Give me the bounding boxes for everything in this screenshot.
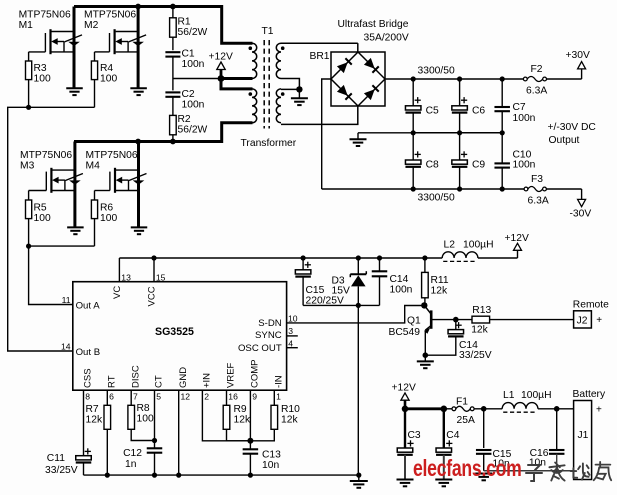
svg-text:9: 9 [252, 391, 257, 401]
svg-text:Battery: Battery [573, 389, 606, 400]
svg-text:F1: F1 [456, 397, 468, 408]
svg-text:BR1: BR1 [310, 51, 330, 62]
svg-text:2: 2 [204, 391, 209, 401]
svg-text:VC: VC [112, 286, 123, 299]
svg-text:25A: 25A [457, 415, 475, 426]
svg-text:1: 1 [276, 391, 281, 401]
svg-text:Out B: Out B [76, 347, 101, 358]
svg-text:C7: C7 [513, 102, 526, 113]
svg-text:15: 15 [156, 273, 166, 283]
svg-text:+12V: +12V [392, 382, 416, 393]
svg-text:12k: 12k [281, 415, 298, 426]
svg-text:R8: R8 [137, 403, 150, 414]
svg-text:35A/200V: 35A/200V [364, 33, 409, 44]
svg-text:7: 7 [133, 391, 138, 401]
svg-text:MTP75N06: MTP75N06 [86, 150, 138, 161]
svg-text:C11: C11 [47, 453, 65, 464]
svg-text:C3: C3 [408, 430, 421, 441]
svg-text:100n: 100n [513, 113, 536, 124]
svg-text:+12V: +12V [505, 233, 529, 244]
svg-text:VCC: VCC [147, 286, 158, 306]
svg-text:5: 5 [156, 391, 161, 401]
svg-text:33/25V: 33/25V [459, 350, 492, 361]
svg-text:MTP75N06: MTP75N06 [84, 9, 136, 20]
svg-text:3300/50: 3300/50 [418, 66, 455, 77]
svg-text:J1: J1 [578, 430, 589, 441]
svg-text:12k: 12k [86, 415, 103, 426]
svg-text:M2: M2 [84, 20, 99, 31]
svg-text:100n: 100n [390, 285, 413, 296]
svg-text:L1: L1 [503, 390, 515, 401]
svg-text:100: 100 [100, 213, 117, 224]
svg-text:R6: R6 [100, 203, 113, 214]
svg-text:+: + [596, 315, 602, 326]
svg-text:100: 100 [100, 74, 117, 85]
svg-text:MTP75N06: MTP75N06 [19, 9, 71, 20]
svg-text:100n: 100n [182, 59, 205, 70]
svg-text:13: 13 [121, 273, 131, 283]
svg-text:CSS: CSS [83, 368, 94, 388]
svg-text:R11: R11 [431, 275, 449, 286]
svg-text:R3: R3 [34, 63, 47, 74]
svg-text:COMP: COMP [250, 360, 261, 389]
svg-text:+IN: +IN [202, 373, 213, 388]
svg-text:CT: CT [154, 375, 165, 388]
svg-text:C13: C13 [262, 450, 281, 461]
svg-text:S-DN: S-DN [258, 318, 282, 329]
svg-text:100: 100 [137, 414, 154, 425]
svg-text:BC549: BC549 [389, 327, 421, 338]
svg-text:12k: 12k [431, 286, 448, 297]
svg-text:100: 100 [34, 213, 51, 224]
svg-text:33/25V: 33/25V [45, 465, 78, 476]
svg-text:Out A: Out A [76, 300, 101, 311]
svg-text:Q1: Q1 [407, 316, 421, 327]
svg-text:C12: C12 [123, 448, 142, 459]
svg-text:C9: C9 [472, 160, 485, 171]
svg-text:100: 100 [34, 74, 51, 85]
svg-text:MTP75N06: MTP75N06 [20, 150, 72, 161]
svg-text:3: 3 [288, 326, 293, 336]
svg-text:14: 14 [61, 341, 71, 351]
svg-text:16: 16 [228, 391, 238, 401]
svg-text:Ultrafast Bridge: Ultrafast Bridge [338, 19, 409, 30]
svg-text:10: 10 [288, 313, 298, 323]
svg-text:F2: F2 [531, 64, 543, 75]
svg-text:R4: R4 [100, 63, 113, 74]
svg-text:R1: R1 [178, 17, 191, 28]
svg-text:6.3A: 6.3A [528, 196, 549, 207]
svg-text:100n: 100n [182, 100, 205, 111]
svg-text:Transformer: Transformer [241, 138, 297, 149]
svg-text:C1: C1 [182, 49, 195, 60]
svg-text:+30V: +30V [566, 50, 590, 61]
svg-text:3300/50: 3300/50 [418, 193, 455, 204]
svg-text:-30V: -30V [570, 209, 592, 220]
svg-text:-IN: -IN [274, 375, 285, 388]
svg-text:M3: M3 [20, 161, 35, 172]
svg-text:R9: R9 [234, 404, 247, 415]
svg-text:12k: 12k [234, 415, 251, 426]
svg-text:100µH: 100µH [463, 240, 494, 251]
svg-text:Output: Output [549, 135, 580, 146]
svg-text:R2: R2 [178, 114, 191, 125]
svg-text:Remote: Remote [573, 300, 609, 311]
svg-text:DISC: DISC [130, 365, 141, 388]
svg-text:4: 4 [288, 338, 293, 348]
svg-text:M1: M1 [19, 20, 34, 31]
svg-text:R13: R13 [472, 305, 491, 316]
svg-text:56/2W: 56/2W [178, 125, 208, 136]
svg-text:C15: C15 [306, 285, 325, 296]
svg-text:56/2W: 56/2W [178, 27, 208, 38]
svg-text:11: 11 [62, 295, 71, 305]
svg-text:15V: 15V [332, 286, 350, 297]
svg-text:R5: R5 [34, 203, 47, 214]
svg-text:100n: 100n [513, 160, 536, 171]
svg-text:+/-30V DC: +/-30V DC [548, 122, 597, 133]
svg-text:L2: L2 [444, 240, 456, 251]
svg-text:F3: F3 [531, 174, 543, 185]
svg-text:R10: R10 [281, 404, 300, 415]
svg-text:C14: C14 [390, 274, 409, 285]
svg-text:M4: M4 [86, 161, 101, 172]
svg-text:8: 8 [85, 391, 90, 401]
svg-text:C5: C5 [426, 106, 439, 117]
svg-text:T1: T1 [262, 26, 274, 37]
svg-text:100µH: 100µH [521, 390, 552, 401]
svg-text:6.3A: 6.3A [526, 86, 547, 97]
svg-text:6: 6 [109, 391, 114, 401]
svg-text:R7: R7 [86, 404, 99, 415]
svg-text:C8: C8 [426, 160, 439, 171]
svg-text:RT: RT [107, 375, 118, 388]
svg-text:VREF: VREF [226, 362, 237, 388]
svg-text:J2: J2 [577, 316, 588, 327]
svg-text:SYNC: SYNC [255, 330, 282, 341]
svg-text:C6: C6 [472, 106, 485, 117]
svg-text:10n: 10n [262, 460, 279, 471]
svg-text:SG3525: SG3525 [155, 326, 194, 338]
svg-text:+: + [596, 405, 602, 416]
svg-text:+12V: +12V [209, 52, 233, 63]
svg-text:12k: 12k [471, 324, 488, 335]
svg-text:OSC OUT: OSC OUT [238, 343, 282, 354]
svg-text:GND: GND [178, 367, 189, 388]
svg-text:12: 12 [181, 391, 191, 401]
svg-text:C4: C4 [446, 430, 459, 441]
svg-text:elecfans.com: elecfans.com [413, 456, 522, 482]
svg-text:C2: C2 [182, 89, 195, 100]
svg-text:1n: 1n [125, 459, 137, 470]
